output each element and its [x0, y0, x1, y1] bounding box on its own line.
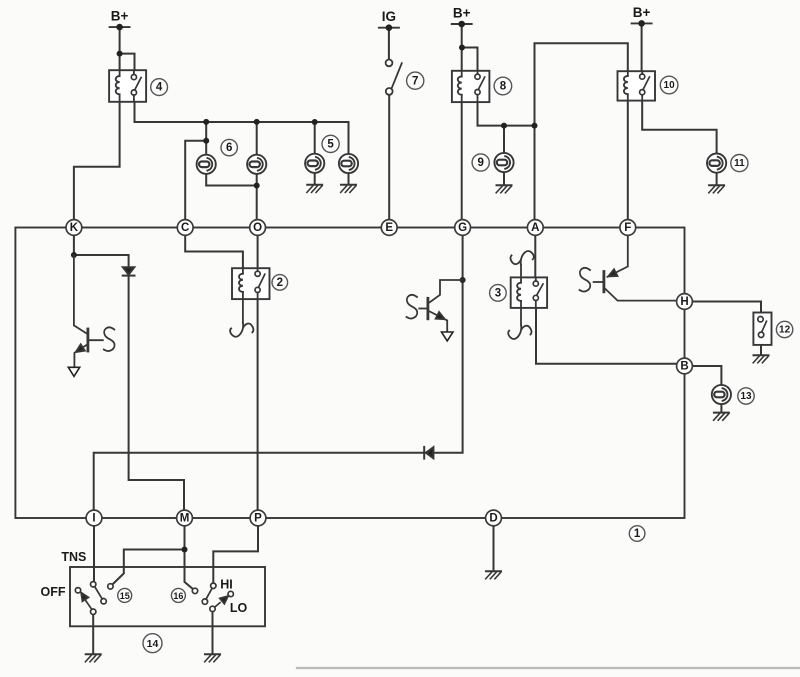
svg-text:1: 1 — [634, 528, 641, 540]
lamp 6 left — [197, 155, 216, 174]
node P — [250, 510, 266, 526]
svg-text:LO: LO — [230, 601, 248, 615]
node G — [455, 220, 471, 236]
B+ terminal 3 — [632, 5, 652, 27]
relay 8 (coil + switch) — [452, 71, 490, 102]
relay 3 (coil + switch) — [511, 277, 547, 308]
transistor Q2 (NPN, base squiggle, emitter arrow to open ground arrow) — [407, 280, 463, 341]
svg-text:12: 12 — [779, 325, 791, 336]
ground below lamp 5 right — [341, 185, 356, 193]
node C — [177, 220, 193, 236]
ignition switch 7 — [386, 60, 402, 95]
svg-text:TNS: TNS — [61, 550, 86, 564]
relay 10 (coil + switch) — [618, 71, 656, 100]
svg-text:F: F — [624, 222, 631, 234]
ground below lamp 9 — [496, 185, 511, 193]
transistor Q3 (PNP, base squiggle, collector to node H) — [580, 235, 678, 301]
wire node I down to switch 15 — [93, 525, 95, 582]
wire node B right to lamp 13 — [692, 366, 722, 412]
squiggle below relay 3 coil — [508, 308, 531, 339]
svg-text:11: 11 — [734, 158, 745, 169]
node A — [527, 220, 543, 236]
ground below lamp 11 — [709, 185, 724, 193]
circled number 8 — [494, 77, 512, 95]
transistor Q1 (PNP, base squiggle, emitter arrow to open ground arrow) — [68, 255, 114, 376]
wire B+ feed to relay R8 coil and switch — [462, 24, 478, 71]
node B — [677, 358, 693, 374]
svg-text:OFF: OFF — [41, 585, 66, 599]
wire relay R4 coil output down-left to node K — [74, 102, 120, 221]
wire lamp 6 bottoms joined down to node O — [206, 174, 257, 221]
svg-text:O: O — [253, 222, 262, 234]
diode below K branch (cathode down) — [123, 267, 135, 275]
wire relay R8 switch output to junction, lamp 9, node A riser and over to relay R10 coil — [478, 43, 628, 221]
label LO — [230, 601, 248, 615]
svg-text:IG: IG — [382, 9, 396, 24]
wire node O down to relay R2 switch — [257, 235, 259, 271]
circled number 12 — [776, 321, 792, 337]
svg-text:5: 5 — [327, 139, 334, 151]
wire main loop bus (K-C-O-E-G-A-F top, right riser through H/B, bottom I-M-P-D, left bus) — [15, 228, 684, 519]
wire node M down to headlight switch, TNS branch — [112, 525, 193, 589]
wire switch 15 common to ground — [92, 614, 94, 653]
squiggle above relay 3 coil — [510, 251, 533, 277]
circled number 11 — [731, 155, 748, 172]
node I — [86, 510, 102, 526]
wire lamp 5 bottoms to grounds — [315, 173, 349, 185]
svg-text:B+: B+ — [633, 5, 651, 20]
switch 15 (OFF/TNS) — [75, 582, 113, 615]
lamp 5 right — [339, 154, 358, 173]
label TNS — [61, 550, 86, 564]
circled number 13 — [738, 388, 754, 404]
wire node A down to relay R3 switch — [534, 235, 536, 281]
circled number 14 — [143, 634, 162, 653]
node K — [66, 220, 82, 236]
wire node C up to lamp 6 branch — [185, 141, 206, 221]
label OFF — [41, 585, 66, 599]
svg-text:8: 8 — [500, 81, 507, 93]
wire node C down to relay R2 coil — [185, 235, 243, 268]
node E — [381, 220, 397, 236]
wire relay R2 switch output down to node P — [257, 293, 259, 511]
node M — [177, 510, 193, 526]
circled number 10 — [660, 76, 678, 94]
svg-text:B+: B+ — [111, 9, 129, 24]
B+ terminal 2 — [452, 6, 472, 28]
wire node P down to HI contact of switch 16 — [213, 525, 258, 583]
svg-text:B+: B+ — [453, 6, 471, 21]
wire node K down to junction — [73, 235, 75, 255]
svg-text:H: H — [680, 296, 688, 308]
switch 12 (box with contacts) — [753, 313, 771, 345]
wire relay R4 switch output to lamp supply bus — [135, 102, 349, 155]
label HI — [220, 578, 233, 592]
node H — [677, 294, 693, 310]
lamp 11 — [707, 154, 726, 173]
svg-text:14: 14 — [147, 638, 159, 650]
svg-text:4: 4 — [156, 82, 163, 94]
diode in middle horizontal run (cathode left) — [424, 447, 433, 459]
svg-text:A: A — [531, 222, 539, 234]
circled number 2 — [272, 275, 288, 291]
svg-text:I: I — [92, 513, 95, 525]
ground below lamp 13 — [714, 413, 729, 421]
wire relay R10 switch output over to lamp 11 — [642, 101, 716, 185]
lamp 5 left — [305, 154, 324, 173]
svg-text:15: 15 — [120, 591, 130, 601]
ground below switch 12 — [753, 355, 768, 363]
B+ terminal 1 — [110, 9, 130, 31]
lamp 9 — [494, 153, 513, 172]
svg-text:2: 2 — [277, 277, 283, 289]
svg-text:6: 6 — [226, 142, 232, 154]
switch 16 (HI/LO) — [192, 583, 233, 612]
svg-text:M: M — [180, 513, 190, 525]
svg-text:C: C — [181, 222, 189, 234]
wire node H right to switch 12 — [692, 302, 761, 313]
svg-text:E: E — [385, 222, 393, 234]
svg-text:K: K — [70, 222, 79, 234]
relay 4 (coil + switch) — [109, 70, 146, 102]
ground below node D — [486, 571, 501, 579]
svg-text:D: D — [489, 513, 497, 525]
svg-text:P: P — [254, 513, 262, 525]
node D — [486, 510, 502, 526]
circled number 7 — [407, 72, 424, 89]
svg-text:B: B — [680, 361, 688, 373]
wire switch 16 common to ground — [212, 612, 214, 654]
wire node D down to ground — [493, 525, 495, 571]
circled number 9 — [472, 154, 489, 171]
lighting switch box 14 — [70, 567, 265, 626]
circled number 16 — [171, 588, 185, 602]
lamp 6 right — [247, 155, 266, 174]
wire B+ feed to relay R10 switch — [641, 23, 643, 71]
wire junction below K to diode branch, down to M riser — [74, 255, 184, 511]
circled number 6 — [221, 139, 237, 155]
wire node G down through collector junction to horizontal run with diode, to node I riser — [94, 235, 463, 511]
circled number 15 — [118, 588, 132, 602]
svg-text:G: G — [458, 222, 467, 234]
wire B+ feed to relay R4 coil and switch — [120, 27, 135, 70]
node O — [250, 220, 266, 236]
wire IG terminal to switch 7 and node E — [388, 28, 390, 221]
svg-text:10: 10 — [664, 80, 676, 91]
relay 2 (coil + switch) — [232, 268, 270, 299]
svg-text:13: 13 — [740, 391, 752, 402]
IG terminal — [379, 9, 399, 31]
node F — [620, 220, 636, 236]
circled number 5 — [322, 135, 339, 152]
circled number 1 — [629, 526, 645, 542]
svg-text:16: 16 — [173, 591, 183, 601]
wire relay R8 coil output down to node G — [461, 102, 463, 221]
circled number 4 — [151, 79, 168, 96]
lamp 13 — [712, 385, 731, 404]
ground below lamp 5 left — [307, 185, 322, 193]
wire relay R3 switch output to node B — [536, 301, 677, 364]
svg-text:3: 3 — [495, 288, 501, 300]
scan artifact line at bottom — [297, 667, 800, 669]
svg-text:9: 9 — [477, 157, 483, 169]
wire relay R10 coil output down to node F — [627, 101, 629, 221]
wire switch 12 to ground — [760, 345, 762, 355]
ground below switch 16 — [205, 654, 220, 662]
svg-text:7: 7 — [412, 75, 418, 87]
squiggle below relay 2 coil — [230, 299, 253, 337]
ground below switch 15 — [85, 654, 100, 662]
svg-text:HI: HI — [220, 578, 233, 592]
circled number 3 — [490, 285, 507, 302]
